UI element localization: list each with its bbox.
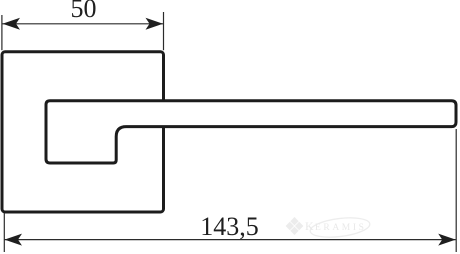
- dimension 50: dimension line: [3, 23, 164, 25]
- dimension 50: left extension line: [1, 15, 3, 50]
- handle lever (white fill overlaps plate edge): [46, 101, 456, 163]
- svg-text:ERAMIS: ERAMIS: [315, 223, 367, 233]
- dimension 143,5: left arrowhead: [5, 234, 23, 246]
- watermark KERAMIS ellipse swoosh: [309, 215, 371, 240]
- dimension 143,5: right arrowhead: [438, 234, 456, 246]
- rosette square plate: [2, 52, 164, 212]
- svg-text:143,5: 143,5: [200, 212, 259, 241]
- dimension 50: right extension line: [163, 12, 165, 50]
- dimension 143,5: right extension line: [455, 129, 457, 252]
- dimension 50: left arrowhead: [3, 18, 21, 30]
- dimension 143,5: dimension line: [5, 239, 456, 241]
- watermark KERAMIS logo diamonds: [286, 217, 304, 235]
- dimension 50: right arrowhead: [146, 18, 164, 30]
- dimension 143,5: left extension line: [3, 213, 5, 252]
- svg-text:50: 50: [71, 0, 97, 23]
